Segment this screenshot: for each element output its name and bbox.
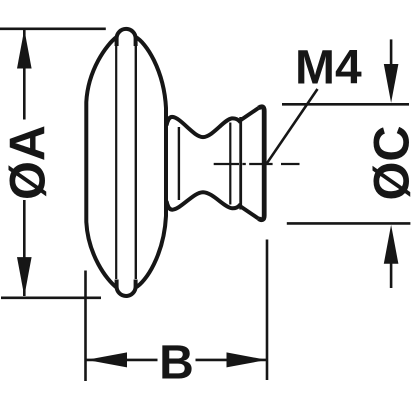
head band contour line left: [115, 46, 117, 279]
dimension line OA lower segment: [23, 200, 26, 296]
arrow B right: [227, 352, 267, 367]
head band contour line right: [135, 46, 137, 279]
extension line B left: [84, 271, 87, 382]
svg-text:ØC: ØC: [364, 126, 416, 201]
knob head outline: [86, 37, 166, 288]
extension line base bottom (OC): [287, 222, 411, 225]
dimension line B right segment: [196, 359, 267, 362]
arrow OA down: [17, 257, 32, 296]
knob head bottom bump: [117, 280, 136, 297]
dimension line B left segment: [87, 359, 158, 362]
dimension line OA upper segment: [23, 30, 26, 120]
svg-text:ØA: ØA: [0, 125, 56, 200]
arrow OC down: [384, 64, 399, 103]
neck contour line at head junction: [178, 127, 180, 200]
neck top edge: [167, 108, 259, 137]
svg-text:B: B: [159, 336, 194, 389]
extension line head top (OA): [0, 27, 106, 30]
extension line head bottom (OA): [1, 296, 101, 299]
neck bottom edge: [167, 192, 259, 218]
arrow OC up: [384, 225, 399, 264]
centerline dash-dot: [214, 163, 300, 165]
neck contour line at base junction: [229, 123, 231, 205]
leader line M4: [267, 89, 318, 164]
base left edge: [239, 117, 242, 210]
dimension line OC lower tail: [390, 262, 393, 288]
arrow OA up: [17, 29, 32, 68]
extension line base top (OC): [282, 103, 409, 106]
knob head top bump: [117, 29, 136, 46]
dimension line OC upper tail: [390, 39, 393, 66]
extension line B right: [266, 240, 269, 381]
arrow B left: [87, 352, 128, 367]
base right face: [259, 107, 265, 220]
svg-text:M4: M4: [295, 41, 362, 94]
